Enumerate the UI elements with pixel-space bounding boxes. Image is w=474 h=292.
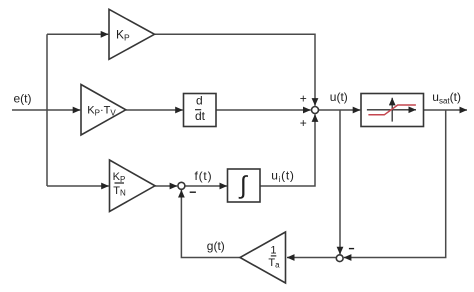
svg-text:usat(t): usat(t) (432, 90, 461, 106)
gain block Kp (triangle) (109, 9, 155, 59)
svg-text:dt: dt (195, 109, 206, 123)
wire: d/dt output into summing junction left (216, 109, 311, 111)
svg-text:∫: ∫ (238, 171, 248, 199)
svg-text:+: + (300, 116, 307, 130)
svg-text:e(t): e(t) (14, 92, 32, 106)
gain block 1/Ta (left-pointing triangle) (240, 232, 286, 283)
block integrator (228, 169, 261, 202)
summing junction u(t) (312, 107, 319, 114)
wire: f(t) from small circle into integrator (185, 185, 227, 187)
wire: bottom circle output g(t) left into 1/Ta gain (287, 257, 336, 259)
block saturation (361, 94, 424, 127)
saturation block x-axis (367, 109, 416, 111)
svg-text:+: + (300, 91, 307, 105)
svg-text:1: 1 (270, 245, 276, 257)
wire: e(t) input to Kp·Tv gain (12, 109, 80, 111)
wire: top branch into Kp gain (47, 33, 108, 35)
wire: u(t) branch down into bottom summing circle top (339, 110, 341, 254)
gain block Kp/Tn (triangle) (110, 160, 156, 212)
wire: Kp output right then down into summing junction top (155, 34, 316, 105)
wire: bottom branch into Kp/Tn gain (47, 185, 109, 187)
wire: integrator output u_i(t) right then up into summing junction bottom (260, 114, 315, 186)
svg-text:f(t): f(t) (195, 169, 213, 183)
svg-text:u(t): u(t) (330, 90, 348, 104)
saturation block y-axis (391, 98, 393, 122)
block d/dt (differentiator) (184, 94, 217, 127)
saturation characteristic curve (red) (368, 105, 416, 115)
summing junction anti-windup (bottom) (336, 255, 343, 262)
minus sign at small summing circle (190, 191, 196, 193)
gain block Kp·Tv (triangle) (81, 85, 126, 136)
svg-text:d: d (196, 94, 203, 108)
svg-text:g(t): g(t) (207, 239, 225, 253)
wire: u(t) from summing junction into saturation block (319, 109, 361, 111)
wire: u_sat feedback down then left into bottom summing circle right (344, 110, 446, 258)
wire: branch vertical from top row to bottom row at x=47 (46, 34, 48, 186)
minus sign at bottom summing circle (349, 248, 354, 250)
wire: 1/Ta output left then up into small circle bottom (181, 190, 240, 258)
wire: saturation output u_sat(t) to right edge (424, 109, 468, 111)
wire: Kp·Tv output into d/dt block (126, 109, 183, 111)
summing junction at integrator input (178, 182, 185, 189)
svg-text:ui(t): ui(t) (271, 169, 294, 185)
wire: Kp/Tn output into small summing circle (155, 185, 177, 187)
